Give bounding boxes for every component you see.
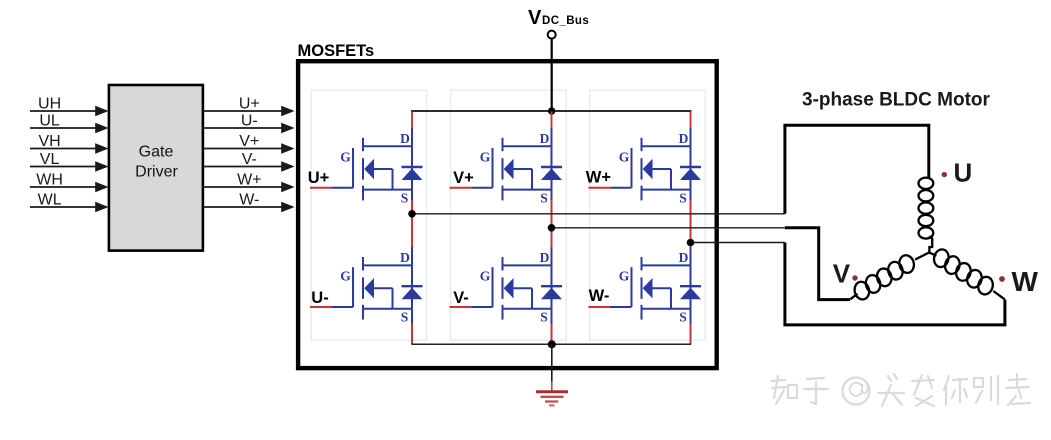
wire red phase node to drain V- — [551, 228, 553, 249]
ground symbol — [536, 382, 568, 406]
node dot W terminal — [999, 276, 1005, 282]
inductor winding U — [919, 178, 934, 254]
input wire UH with arrow into gate driver — [30, 95, 109, 116]
svg-text:W+: W+ — [586, 169, 611, 187]
svg-text:G: G — [340, 269, 351, 284]
wire red source U+ to phase node — [411, 200, 413, 214]
svg-text:V-: V- — [453, 289, 469, 307]
svg-text:S: S — [540, 310, 548, 325]
gate drive wire W- with arrow into MOSFET box — [203, 191, 295, 212]
wire bottom rail — [412, 343, 692, 345]
svg-text:Driver: Driver — [135, 164, 178, 181]
inductor winding V — [844, 242, 934, 307]
inductor winding W — [925, 243, 1011, 308]
svg-text:V+: V+ — [239, 133, 259, 150]
junction dot phase U — [408, 210, 416, 218]
wire red drain stub top W+ — [690, 112, 692, 129]
svg-text:3-phase BLDC Motor: 3-phase BLDC Motor — [802, 90, 991, 111]
junction dot phase V — [548, 224, 556, 232]
svg-text:G: G — [480, 150, 491, 165]
wire red source W- to bottom rail — [690, 324, 692, 345]
wire phase U output — [412, 213, 785, 215]
svg-text:S: S — [679, 191, 687, 206]
transistor Q U+ — [332, 128, 423, 206]
svg-text:Gate: Gate — [139, 144, 174, 161]
gate drive wire W+ with arrow into MOSFET box — [203, 171, 295, 192]
gate drive wire V+ with arrow into MOSFET box — [203, 133, 295, 154]
transistor Q W- — [611, 247, 702, 325]
svg-text:D: D — [400, 131, 410, 146]
svg-text:D: D — [679, 250, 689, 265]
wire red phase node to drain U- — [411, 214, 413, 249]
svg-text:S: S — [401, 191, 409, 206]
svg-text:WL: WL — [38, 191, 62, 208]
watermark (faint) — [772, 374, 1030, 406]
svg-text:U-: U- — [241, 112, 258, 129]
svg-text:W-: W- — [589, 287, 610, 305]
svg-text:UH: UH — [38, 95, 61, 112]
node dot U terminal — [942, 172, 947, 177]
svg-text:U+: U+ — [239, 95, 260, 112]
wire motor phase W (thick) — [785, 243, 1005, 325]
junction dot VDC rail — [548, 107, 555, 114]
node dot V terminal — [852, 275, 857, 280]
svg-text:V: V — [528, 7, 542, 29]
wire phase V output — [552, 227, 785, 229]
junction dot phase W — [687, 239, 695, 247]
svg-text:VH: VH — [38, 133, 60, 150]
svg-text:D: D — [540, 131, 550, 146]
svg-text:VL: VL — [40, 151, 60, 168]
junction dot bottom rail — [548, 340, 556, 348]
wire red gate stub W- — [589, 306, 611, 308]
wire motor phase V (thick) — [785, 228, 850, 300]
svg-text:U: U — [954, 158, 973, 188]
gate drive wire U- with arrow into MOSFET box — [203, 112, 295, 133]
transistor Q V- — [472, 247, 563, 325]
svg-text:W: W — [1012, 266, 1039, 297]
wire red gate stub U+ — [310, 187, 332, 189]
phase leg W highlight rectangle — [590, 90, 706, 340]
wire red drain stub top U+ — [411, 112, 413, 129]
svg-text:G: G — [619, 269, 630, 284]
VDC_Bus terminal and label — [528, 7, 589, 39]
input wire WL with arrow into gate driver — [30, 191, 109, 212]
wire red source W+ to phase node — [690, 200, 692, 243]
gate drive wire V- with arrow into MOSFET box — [203, 151, 295, 172]
svg-text:V-: V- — [242, 151, 257, 168]
svg-text:U-: U- — [311, 289, 328, 307]
svg-text:UL: UL — [39, 112, 60, 129]
svg-text:S: S — [679, 310, 687, 325]
transistor Q W+ — [611, 128, 702, 206]
svg-text:W-: W- — [239, 191, 259, 208]
wire motor phase U (thick) — [785, 125, 929, 214]
transistor Q U- — [332, 247, 423, 325]
wire red gate stub U- — [310, 306, 332, 308]
wire top DC rail — [411, 110, 692, 112]
svg-text:D: D — [540, 250, 550, 265]
input wire UL with arrow into gate driver — [30, 112, 109, 133]
wire red gate stub V- — [450, 306, 472, 308]
svg-text:S: S — [401, 310, 409, 325]
wire VDC bus vertical — [551, 39, 553, 111]
wire red drain stub top V+ — [551, 112, 553, 129]
svg-text:V+: V+ — [453, 169, 474, 187]
wire red gate stub V+ — [450, 187, 472, 189]
svg-text:D: D — [400, 250, 410, 265]
svg-text:S: S — [540, 191, 548, 206]
svg-text:G: G — [480, 269, 491, 284]
wire red gate stub W+ — [589, 187, 611, 189]
gate drive wire U+ with arrow into MOSFET box — [203, 95, 295, 116]
input wire VL with arrow into gate driver — [30, 151, 109, 172]
svg-text:U+: U+ — [308, 169, 330, 187]
wire red source V- to bottom rail — [551, 324, 553, 345]
svg-text:V: V — [833, 259, 851, 289]
wire ground stem — [551, 344, 553, 381]
wire phase W output — [691, 242, 785, 244]
input wire VH with arrow into gate driver — [30, 133, 109, 154]
svg-text:G: G — [340, 150, 351, 165]
phase leg V highlight rectangle — [451, 90, 567, 340]
svg-text:DC_Bus: DC_Bus — [542, 15, 589, 27]
phase leg U highlight rectangle — [311, 90, 427, 340]
wire red phase node to drain W- — [690, 243, 692, 250]
gate driver U1 — [109, 85, 203, 251]
wire red source U- to bottom rail — [411, 324, 413, 345]
svg-text:D: D — [679, 131, 689, 146]
input wire WH with arrow into gate driver — [30, 171, 109, 192]
svg-text:G: G — [619, 150, 630, 165]
MOSFET bridge box — [298, 42, 717, 368]
svg-text:W+: W+ — [237, 171, 261, 188]
wire red source V+ to phase node — [551, 200, 553, 228]
transistor Q V+ — [472, 128, 563, 206]
svg-text:WH: WH — [36, 171, 63, 188]
svg-text:MOSFETs: MOSFETs — [298, 42, 375, 60]
